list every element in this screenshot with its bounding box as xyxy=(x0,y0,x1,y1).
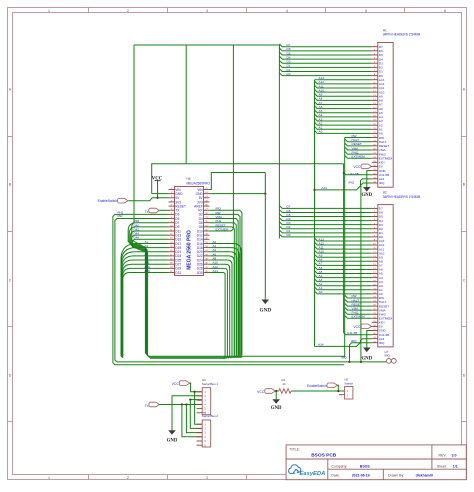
wire bus control vertical xyxy=(344,138,346,358)
wire A7 to H2 xyxy=(315,262,372,266)
wire A2 to H1 xyxy=(315,121,372,125)
wire A1 to H1 xyxy=(315,126,372,130)
wire A14 to H2 xyxy=(315,339,372,347)
wire group bottom horizontals xyxy=(149,356,345,358)
svg-text:EnableSwitch: EnableSwitch xyxy=(98,199,118,203)
ground symbol (switch) xyxy=(271,391,282,411)
svg-text:4: 4 xyxy=(286,9,288,13)
svg-text:VCC: VCC xyxy=(353,165,361,169)
connector H2 34PIN HEADERS body xyxy=(378,191,421,347)
net port VCC (serial) xyxy=(172,381,190,386)
svg-text:U11-5B: U11-5B xyxy=(347,331,357,335)
wire A4 to H2 xyxy=(315,274,372,278)
svg-text:Sheet:: Sheet: xyxy=(437,464,447,468)
svg-text:Switch: Switch xyxy=(344,381,353,385)
label U11-5B (H2) xyxy=(347,331,357,335)
svg-text:6: 6 xyxy=(444,9,446,13)
connector H5 pins xyxy=(339,389,349,397)
svg-text:A14: A14 xyxy=(321,186,327,190)
wire VMA to H2 xyxy=(345,306,372,310)
wire VCC to SB2 pin1 xyxy=(195,392,202,424)
wire A8 to H2 xyxy=(315,258,372,262)
wire D5 to H2 xyxy=(279,213,371,217)
svg-text:Company:: Company: xyxy=(331,464,347,468)
wire PHI2 to H1 xyxy=(345,150,372,154)
title block xyxy=(286,445,466,480)
connector H4 pins xyxy=(197,422,207,447)
svg-text:Date:: Date: xyxy=(331,473,339,477)
svg-text:1: 1 xyxy=(48,9,50,13)
wire A5 to H2 xyxy=(315,270,372,274)
svg-text:EXTMEM: EXTMEM xyxy=(352,315,366,319)
net port VCC (H1) xyxy=(353,164,371,169)
svg-text:VCC: VCC xyxy=(353,325,361,329)
wire A1 to H2 xyxy=(315,286,372,290)
net port VCC (switch) xyxy=(257,389,275,395)
svg-text:EnableSwitch: EnableSwitch xyxy=(307,384,327,388)
net port EnableSwitch (switch) xyxy=(307,383,337,388)
svg-text:IRQ: IRQ xyxy=(349,181,355,185)
wire left descender xyxy=(132,45,148,355)
wire A2 to H2 xyxy=(315,282,372,286)
wire A6 to H1 xyxy=(315,105,372,109)
svg-text:1k: 1k xyxy=(283,382,287,386)
svg-text:U11-5B: U11-5B xyxy=(349,172,359,176)
connector H2 pins xyxy=(372,207,393,345)
ground symbol (H1) xyxy=(361,171,372,198)
wire A0 to H1 xyxy=(315,130,372,134)
wire group upper-left bus xyxy=(128,219,168,358)
wire GND row left xyxy=(152,193,169,195)
svg-text:34PIN HEADERS 2.54MM: 34PIN HEADERS 2.54MM xyxy=(383,195,421,199)
label U11-5B (H1) xyxy=(349,172,359,176)
svg-text:Serial Bus 1: Serial Bus 1 xyxy=(202,382,219,386)
wire D0 to H1 xyxy=(279,72,371,76)
wire GND to SB1 pin2 xyxy=(172,396,202,430)
wire VCC to R1 xyxy=(275,390,279,392)
svg-text:TITLE:: TITLE: xyxy=(289,448,300,452)
wire A7 to H1 xyxy=(315,101,372,105)
module H6 left pins xyxy=(169,188,186,275)
wire HALT to H2 xyxy=(345,298,372,302)
svg-text:34PIN HEADERS 2.54MM: 34PIN HEADERS 2.54MM xyxy=(383,33,421,37)
wire HALT to H1 xyxy=(345,138,372,142)
wire IRQ to H2 xyxy=(348,339,371,363)
wire A11 to H2 xyxy=(315,245,372,249)
svg-text:3: 3 xyxy=(206,476,208,480)
wire EnableSwitch to 5V xyxy=(128,198,152,201)
svg-text:RW: RW xyxy=(118,214,123,218)
svg-text:D: D xyxy=(9,374,12,378)
wire RW to H2 xyxy=(345,294,372,298)
wire D6 to H2 xyxy=(279,209,371,213)
svg-text:MEGA2560PRO: MEGA2560PRO xyxy=(187,181,211,185)
EasyEDA logo xyxy=(289,465,326,477)
svg-text:EXTMEM: EXTMEM xyxy=(216,227,229,231)
svg-text:VCC: VCC xyxy=(172,382,180,386)
wire D3 to H2 xyxy=(279,221,371,225)
svg-text:Tx: Tx xyxy=(145,210,149,214)
net port VCC (H2) xyxy=(353,324,371,329)
svg-text:IRQ: IRQ xyxy=(379,181,385,185)
svg-text:GND: GND xyxy=(260,308,272,314)
wire bus A vertical xyxy=(314,80,316,347)
wire Tx to SB1 pin4 xyxy=(159,403,202,405)
ground symbol (center) xyxy=(260,300,272,314)
wire A3 to H2 xyxy=(315,278,372,282)
wire D1 to H2 xyxy=(279,229,371,233)
connector H1 pins xyxy=(372,45,393,185)
svg-text:GND: GND xyxy=(271,406,282,411)
svg-text:IRQ: IRQ xyxy=(385,353,391,357)
resistor R1 xyxy=(279,378,291,393)
frame row letters xyxy=(9,88,466,378)
wire SB1 pin3 net xyxy=(189,398,202,428)
wire U11-5B rail loop xyxy=(152,164,344,194)
wire PH2 from module xyxy=(113,210,344,364)
wire PHI2 to H2 xyxy=(345,311,372,315)
wire A6 to H2 xyxy=(315,266,372,270)
connector H3 Serial Bus 1 body xyxy=(202,378,219,415)
svg-text:IRQ: IRQ xyxy=(351,339,357,343)
svg-text:5: 5 xyxy=(365,9,367,13)
wire RW to H1 xyxy=(345,134,372,138)
svg-text:D31: D31 xyxy=(175,271,181,275)
wire 5V row xyxy=(152,197,169,199)
net port EnableSwitch (module) xyxy=(98,198,128,203)
wire D1 to H1 xyxy=(279,68,371,72)
power flag VCC (module) xyxy=(152,177,163,198)
wire A5 to H1 xyxy=(315,109,372,113)
wire A10 to H1 xyxy=(315,88,372,92)
svg-text:1: 1 xyxy=(48,476,50,480)
ground symbol (H2) xyxy=(361,331,372,362)
wire bus D vertical xyxy=(278,45,280,239)
wire Tx to module xyxy=(160,209,169,211)
wire RESET to H1 xyxy=(345,142,372,146)
svg-text:BSOS PCB: BSOS PCB xyxy=(311,452,337,458)
wire to SB2 pin3 xyxy=(186,405,201,433)
svg-text:C: C xyxy=(9,279,12,283)
wire A3 to H1 xyxy=(315,117,372,121)
junction GND net xyxy=(264,192,266,194)
svg-text:A14: A14 xyxy=(318,343,324,347)
svg-text:Tx: Tx xyxy=(145,404,149,408)
wire A11 to H1 xyxy=(315,84,372,88)
svg-text:IRQ: IRQ xyxy=(379,341,385,345)
svg-text:GND: GND xyxy=(361,193,372,198)
svg-text:D30: D30 xyxy=(197,271,203,275)
svg-text:3.0: 3.0 xyxy=(452,454,457,458)
wire group lower-right bus xyxy=(210,240,242,359)
svg-text:A0: A0 xyxy=(319,290,323,294)
svg-text:2: 2 xyxy=(127,9,129,13)
module U8 MEGA2560PRO body xyxy=(175,177,211,276)
wire EXTMEM to H2 xyxy=(345,315,372,319)
svg-text:A14: A14 xyxy=(213,269,219,273)
wire EnableSwitch to junction xyxy=(337,385,339,391)
svg-text:2: 2 xyxy=(127,476,129,480)
ground symbol (serial) xyxy=(167,430,178,443)
wire GND loop xyxy=(210,173,266,190)
wire D4 to H1 xyxy=(279,55,371,59)
wire A9 to H1 xyxy=(315,93,372,97)
svg-text:D: D xyxy=(463,374,466,378)
wire IRQ rail xyxy=(117,356,386,362)
module H6 right pins xyxy=(194,188,209,275)
svg-text:D46: D46 xyxy=(134,236,140,240)
title block texts xyxy=(289,448,457,478)
jumper H7 IRQ xyxy=(385,350,397,363)
wire group lower-left bus xyxy=(121,240,169,358)
wire top rail loop xyxy=(134,44,279,46)
svg-text:D0: D0 xyxy=(287,233,291,237)
wire GND drop xyxy=(264,173,266,300)
wire D2 to H2 xyxy=(279,225,371,229)
svg-text:VCC: VCC xyxy=(257,390,265,394)
net port Tx (module) xyxy=(145,208,159,214)
wire group control from module xyxy=(210,45,242,358)
wire A13 to H2 xyxy=(315,237,372,241)
wire U11-5B feeder xyxy=(343,164,372,335)
wire to SB2 pin4 xyxy=(182,405,202,437)
svg-text:MEGA 2560 PRO: MEGA 2560 PRO xyxy=(187,230,193,270)
wire A4 to H1 xyxy=(315,113,372,117)
net port Tx (serial) xyxy=(145,402,160,408)
wire RW from module xyxy=(115,214,169,362)
wire A12 to H2 xyxy=(315,241,372,245)
svg-text:C: C xyxy=(463,279,466,283)
svg-text:REV:: REV: xyxy=(439,454,447,458)
wire A10 to H2 xyxy=(315,249,372,253)
svg-text:Drawn By:: Drawn By: xyxy=(388,473,404,477)
wire vertical branch node xyxy=(185,45,187,164)
wire IRQ to H1 xyxy=(349,181,372,363)
svg-text:EXTMEM: EXTMEM xyxy=(352,155,366,159)
wire VCC to SB1 pin1 xyxy=(189,383,202,393)
svg-text:3: 3 xyxy=(206,9,208,13)
wire D2 to H1 xyxy=(279,64,371,68)
svg-text:Serial Bus 2: Serial Bus 2 xyxy=(202,414,219,418)
connector H4 Serial Bus 2 body xyxy=(202,411,219,448)
wire EXTMEM to H1 xyxy=(345,155,372,159)
svg-text:A15: A15 xyxy=(145,269,151,273)
svg-text:D0: D0 xyxy=(287,72,291,76)
connector H5 Switch body xyxy=(344,378,353,399)
svg-text:2021-06-19: 2021-06-19 xyxy=(352,473,370,477)
connector H1 34PIN HEADERS body xyxy=(378,29,421,188)
svg-text:1/1: 1/1 xyxy=(453,464,458,468)
svg-text:dickhamill: dickhamill xyxy=(416,473,433,477)
svg-text:EasyEDA: EasyEDA xyxy=(300,471,326,477)
wire A0 to H2 xyxy=(315,290,372,294)
svg-text:A0: A0 xyxy=(319,130,323,134)
wire D6 to H1 xyxy=(279,47,371,51)
wire D7 to H1 xyxy=(279,43,371,47)
wire D5 to H1 xyxy=(279,51,371,55)
svg-text:GND: GND xyxy=(361,356,372,361)
wire VMA to H1 xyxy=(345,146,372,150)
connector H3 pins xyxy=(197,390,207,415)
wire D0 to H2 xyxy=(279,233,371,237)
wire RESET to H2 xyxy=(345,302,372,306)
svg-text:BSOS: BSOS xyxy=(360,464,371,468)
wire A12 to H1 xyxy=(315,80,372,84)
wire A14 to H1 xyxy=(313,179,371,191)
wire A13 to H1 xyxy=(315,76,372,80)
wire D4 to H2 xyxy=(279,217,371,221)
wire A8 to H1 xyxy=(315,97,372,101)
junction VCC/5V xyxy=(156,197,158,199)
wire D7 to H2 xyxy=(279,205,371,209)
wire R1 to switch xyxy=(291,390,345,392)
wire A9 to H2 xyxy=(315,254,372,258)
wire D3 to H1 xyxy=(279,60,371,64)
wire module GND right xyxy=(210,193,266,195)
svg-text:GND: GND xyxy=(167,439,178,444)
